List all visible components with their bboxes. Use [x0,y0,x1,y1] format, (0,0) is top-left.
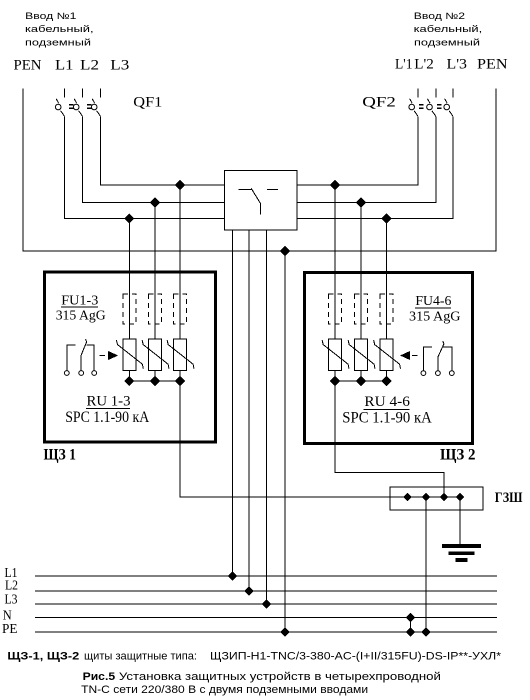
label: Ввод №2 annotation [414,11,483,47]
bus L2 [35,590,497,592]
svg-text:FU1-3: FU1-3 [61,294,98,309]
breaker QF1 pole 3 (L3) with wire to transfer box [91,89,224,186]
wire ГЗШ to earth electrode [459,497,461,544]
varistor RU6 [374,339,401,371]
svg-text:TN-C сети 220/380 В с двумя по: TN-C сети 220/380 В с двумя подземными в… [81,684,368,696]
node junction diamond on L3 line [125,214,134,223]
ground symbol [442,546,481,560]
node ГЗШ junction 3 [441,494,448,501]
wire RU5 to bus [360,371,362,382]
wire from junction on L2 line down to FU2 [154,203,156,340]
node junction jumper on N bus [407,614,415,622]
node junction diamond on L1 line [176,181,185,190]
svg-text:ЩЗ-1, ЩЗ-2 щиты защитные типа:: ЩЗ-1, ЩЗ-2 щиты защитные типа: ЩЗИП-Н1-T… [7,651,501,663]
node junction diamond on L'3 line [382,214,391,223]
dashed arrow to RU4-6 [401,352,417,360]
svg-text:L'2: L'2 [414,56,434,72]
varistor RU4 [322,339,349,371]
QF1 mechanical link dashes [69,105,92,108]
varistor RU5 [348,339,375,371]
label: Ввод №1 annotation [25,11,94,47]
fuse FU6 (dashed body) [380,294,393,324]
wire transfer box to L1 bottom bus [231,230,233,576]
auxiliary contact (right box) [421,341,454,375]
svg-text:FU4-6: FU4-6 [415,294,451,309]
svg-text:PEN: PEN [477,56,508,72]
enclosure box ЩЗ 1 [45,272,216,442]
wire RU1-3 bus down and right to ГЗШ [180,381,460,497]
bus L1 [35,575,497,577]
node junction RU3 [176,377,185,386]
breaker QF2 pole 1 (L'1) with wire to transfer box [297,89,418,186]
bus N [35,617,497,619]
breaker QF1 pole 2 (L2) with wire to transfer box [73,89,224,203]
wire RU6 to bus [386,371,388,382]
node junction PEN drop on PE bus [281,628,289,636]
svg-text:ЩЗ 2: ЩЗ 2 [440,447,476,464]
wire from junction on L'3 line down to FU6 [386,219,388,340]
wire RU4 to bus [334,371,336,382]
node junction ГЗШ line on PE bus [422,628,430,636]
wire PEN junction down to PE bus [284,251,286,632]
node junction jumper on PE bus [407,628,415,636]
svg-text:PE: PE [2,621,18,636]
node junction on L1 bus [228,572,236,580]
svg-text:L3: L3 [110,58,129,74]
svg-text:QF1: QF1 [133,94,162,110]
node ГЗШ junction 1 [404,494,411,501]
node ГЗШ junction 4 [457,494,464,501]
wire from junction on L1 line down to FU3 [179,185,181,339]
svg-text:L'3: L'3 [447,56,468,72]
bus L3 [35,603,497,605]
svg-text:L2: L2 [80,58,99,74]
fuse FU2 (dashed body) [149,294,162,324]
svg-text:Ввод №2: Ввод №2 [414,11,465,21]
node junction RU6 [382,377,391,386]
svg-text:L2: L2 [5,578,18,593]
node junction on L2 bus [245,587,253,595]
dashed arrow to RU1-3 [100,352,118,360]
svg-text:PEN: PEN [14,58,42,74]
node junction RU5 [357,377,366,386]
svg-text:кабельный,: кабельный, [25,24,94,34]
bus PE [35,631,497,633]
node junction diamond on L'1 line [331,181,340,190]
node junction on L3 bus [262,600,270,608]
fuse FU3 (dashed body) [174,294,187,324]
wire from junction on L'2 line down to FU5 [360,203,362,340]
node ГЗШ junction 2 [423,494,430,501]
QF2 mechanical link dashes [419,105,442,108]
wire RU4-6 bus down, right and into ГЗШ [335,381,444,497]
breaker QF2 pole 2 (L'2) with wire to transfer box [297,89,436,203]
varistor RU2 [142,339,169,371]
svg-text:L'1: L'1 [395,56,413,72]
busbar box ГЗШ [390,487,483,510]
wire RU bus left box [129,380,180,382]
wire PEN left riser, bottom PEN bus and right riser [23,89,496,252]
transfer switch box [225,171,297,231]
breaker QF1 pole 1 (L1) with wire to transfer box [55,89,224,219]
transfer switch symbol inside box [238,188,278,215]
node junction diamond on PEN bus [281,247,290,256]
svg-text:SPC 1.1-90 кА: SPC 1.1-90 кА [342,410,432,427]
svg-text:RU 1-3: RU 1-3 [87,394,131,410]
wire RU1 to bus [128,371,130,382]
auxiliary contact (left box) [64,339,96,375]
breaker QF2 pole 3 (L'3) with wire to transfer box [297,89,453,219]
fuse FU1 (dashed body) [123,294,136,324]
wire transfer box to L2 bottom bus [248,230,250,591]
svg-text:ЩЗ 1: ЩЗ 1 [44,447,77,464]
enclosure box ЩЗ 2 [304,272,472,443]
svg-text:315 AgG: 315 AgG [56,309,106,324]
node junction diamond on L'2 line [357,198,366,207]
svg-text:подземный: подземный [25,37,91,47]
fuse FU4 (dashed body) [329,294,342,324]
svg-text:RU 4-6: RU 4-6 [364,394,410,410]
wire RU2 to bus [154,371,156,382]
node junction diamond on L2 line [151,198,160,207]
svg-text:L3: L3 [5,592,18,607]
svg-text:Рис.5 Установка защитных устро: Рис.5 Установка защитных устройств в чет… [83,671,441,683]
wire from junction on L3 line down to FU1 [128,219,130,340]
varistor RU1 [116,339,143,371]
svg-text:подземный: подземный [414,37,480,47]
wire ГЗШ to PE bus [425,497,427,632]
svg-text:ГЗШ: ГЗШ [495,490,523,506]
node junction RU2 [151,377,160,386]
varistor RU3 [167,339,194,371]
node junction RU4 [331,377,340,386]
wire from junction on L'1 line down to FU4 [334,185,336,339]
svg-text:Ввод №1: Ввод №1 [25,11,76,21]
fuse FU5 (dashed body) [355,294,368,324]
svg-text:315 AgG: 315 AgG [409,310,461,325]
node junction RU1 [125,377,134,386]
svg-text:QF2: QF2 [362,95,396,111]
wire N-PE bond jumper [410,618,412,633]
wire transfer box to L3 bottom bus [265,230,267,604]
wire RU bus right box [335,380,387,382]
wire RU3 to bus [179,371,181,382]
svg-text:SPC 1.1-90 кА: SPC 1.1-90 кА [65,409,150,426]
svg-text:L1: L1 [55,58,74,74]
svg-text:кабельный,: кабельный, [414,24,483,34]
